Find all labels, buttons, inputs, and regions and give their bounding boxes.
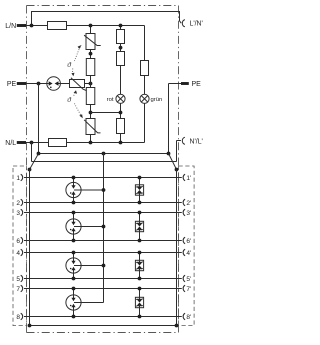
svg-text:L/N: L/N	[5, 23, 16, 30]
wire line row 1	[24, 177, 182, 179]
spark gap G4 (3-electrode GDT)	[73, 289, 75, 295]
fuse F1	[48, 25, 67, 27]
svg-text:N/L: N/L	[5, 140, 16, 147]
svg-text:6': 6'	[186, 238, 191, 245]
wire left column	[90, 26, 92, 34]
wire gruen lamp column	[144, 26, 146, 61]
node G1 bottom	[72, 201, 76, 205]
node N/L junction	[30, 141, 34, 145]
wire PE row	[26, 83, 47, 85]
node G3 ground junction	[102, 264, 106, 268]
node L/N junction	[30, 24, 34, 28]
lamp gruen (green)	[140, 94, 149, 103]
terminal PE left	[17, 82, 26, 85]
terminal 1	[21, 174, 23, 180]
terminal 8'	[183, 313, 185, 319]
terminal 6	[21, 237, 23, 243]
node disconnect upper	[89, 52, 93, 56]
spark gap G1 (3-electrode GDT)	[73, 178, 75, 183]
suppressor diode D1 (bidirectional TVS)	[139, 178, 141, 185]
enclosure border (dash-dot)	[27, 6, 179, 333]
node G2 ground junction	[102, 225, 106, 229]
node PE rail mid	[102, 152, 106, 156]
node G3 top	[72, 251, 76, 255]
varistor V1	[86, 34, 95, 50]
node bottom rot column	[119, 141, 123, 145]
wire G1 electrode to ground	[81, 189, 103, 191]
lamp rot (red)	[116, 94, 125, 103]
svg-text:rot: rot	[107, 97, 114, 103]
svg-text:1: 1	[16, 175, 20, 182]
node between R3 R4	[119, 46, 123, 50]
svg-text:2: 2	[16, 200, 20, 207]
svg-text:2': 2'	[186, 200, 191, 207]
terminal N'/L'	[182, 137, 185, 144]
spark gap G2 (3-electrode GDT)	[73, 213, 75, 219]
node D3 top	[138, 251, 142, 255]
node G1 top	[72, 176, 76, 180]
svg-text:6: 6	[16, 238, 20, 245]
wire ground diagonal left	[30, 154, 39, 170]
node G1 ground junction	[102, 188, 106, 192]
svg-text:grün: grün	[151, 97, 163, 103]
node bottom of left column	[89, 141, 93, 145]
resistor R5	[117, 119, 125, 134]
terminal 4	[21, 249, 23, 255]
right terminal strip (dashed box)	[179, 166, 195, 326]
node ground left top	[28, 168, 32, 172]
wire line row 3	[24, 212, 182, 214]
terminal 1'	[183, 174, 185, 180]
wire ground diagonal right	[169, 154, 177, 170]
node G4 bottom	[72, 315, 76, 319]
terminal 3'	[183, 209, 185, 215]
terminal 6'	[183, 237, 185, 243]
node D4 bottom	[138, 315, 142, 319]
terminal 2'	[183, 199, 185, 205]
svg-text:7: 7	[16, 286, 20, 293]
wire G2 electrode to ground	[81, 226, 103, 228]
node top rot column	[119, 24, 123, 28]
svg-text:7': 7'	[186, 286, 191, 293]
resistor R3	[117, 30, 125, 44]
resistor R6	[141, 61, 149, 76]
node mid junction	[89, 82, 93, 86]
left terminal strip (dashed box)	[13, 166, 27, 326]
terminal L'/N'	[182, 20, 185, 27]
wire rot lamp column	[120, 26, 122, 30]
wire mid link	[91, 112, 121, 114]
wire G3 electrode to ground	[81, 265, 103, 267]
wire L/N row	[26, 25, 48, 27]
node G3 bottom	[72, 277, 76, 281]
suppressor diode D3 (bidirectional TVS)	[139, 253, 141, 261]
terminal 5'	[183, 275, 185, 281]
terminal 8	[21, 313, 23, 319]
node D4 top	[138, 287, 142, 291]
svg-text:PE: PE	[192, 81, 202, 88]
svg-text:L'/N': L'/N'	[190, 21, 203, 28]
terminal 4'	[183, 249, 185, 255]
node D1 bottom	[138, 201, 142, 205]
node PE junction	[37, 82, 41, 86]
svg-text:5: 5	[16, 276, 20, 283]
svg-text:8: 8	[16, 314, 20, 321]
spark gap (gas discharge tube) upper	[47, 77, 61, 91]
terminal 3	[21, 209, 23, 215]
node D2 bottom	[138, 239, 142, 243]
terminal 5	[21, 275, 23, 281]
node ground bus left	[28, 324, 32, 328]
node D3 bottom	[138, 277, 142, 281]
node top of left column	[89, 24, 93, 28]
node G2 bottom	[72, 239, 76, 243]
node PE rail right	[167, 152, 171, 156]
varistor V3 (horizontal)	[70, 80, 85, 88]
node G2 top	[72, 211, 76, 215]
wire line row 5	[24, 278, 182, 280]
resistor R2	[86, 88, 95, 105]
terminal L/N	[17, 24, 26, 27]
svg-text:N'/L': N'/L'	[190, 138, 203, 145]
wire G4 electrode to ground	[81, 302, 103, 304]
resistor R4	[117, 52, 125, 66]
wire line row 4	[24, 252, 182, 254]
node D1 top	[138, 176, 142, 180]
wire line row 2	[24, 202, 182, 204]
suppressor diode D4 (bidirectional TVS)	[139, 289, 141, 298]
svg-text:4: 4	[16, 250, 20, 257]
terminal 2	[21, 199, 23, 205]
svg-text:8': 8'	[186, 314, 191, 321]
svg-text:3': 3'	[186, 210, 191, 217]
wire bypass L/N to L'/N'	[32, 12, 182, 26]
svg-text:PE: PE	[7, 81, 17, 88]
fuse F3	[48, 142, 66, 144]
spark gap G3 (3-electrode GDT)	[73, 253, 75, 258]
wire ground rail middle vertical	[103, 154, 105, 303]
node PE rail left	[37, 152, 41, 156]
terminal N/L	[17, 141, 26, 144]
node disconnect lower	[89, 111, 93, 115]
wire N/L row	[26, 142, 48, 144]
svg-text:1': 1'	[186, 175, 191, 182]
wire ground rail left vertical	[29, 170, 31, 326]
terminal PE right	[181, 82, 189, 85]
wire ground bus bottom	[30, 325, 177, 327]
resistor R1	[86, 59, 95, 76]
varistor V2	[86, 119, 95, 135]
node ground right top	[175, 168, 179, 172]
node ground bus right	[175, 324, 179, 328]
suppressor diode D2 (bidirectional TVS)	[139, 213, 141, 222]
wire line row 8	[24, 316, 182, 318]
node D2 top	[138, 211, 142, 215]
svg-text:4': 4'	[186, 250, 191, 257]
node G4 top	[72, 287, 76, 291]
wire PE feed-through	[38, 84, 40, 154]
wire ground rail right vertical	[176, 170, 178, 326]
node rot lamp bottom	[119, 111, 123, 115]
wire line row 6	[24, 240, 182, 242]
terminal 7	[21, 285, 23, 291]
wire line row 7	[24, 288, 182, 290]
svg-text:5': 5'	[186, 276, 191, 283]
wire N/L to N'/L'	[31, 143, 33, 162]
svg-text:3: 3	[16, 210, 20, 217]
terminal 7'	[183, 285, 185, 291]
